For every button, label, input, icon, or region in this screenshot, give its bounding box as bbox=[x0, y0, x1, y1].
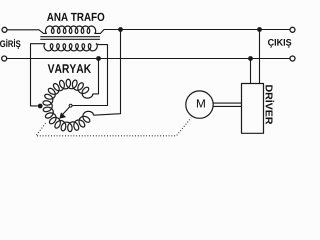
wire transformer primary to top line bbox=[94, 30, 290, 34]
terminal input L (top-left) bbox=[2, 27, 7, 32]
wire input L to transformer primary bbox=[7, 30, 47, 34]
junction dot neutral / variac top end riser bbox=[96, 56, 101, 61]
variac wiper pivot bbox=[69, 104, 72, 107]
motor shaft to driver bbox=[213, 103, 241, 106]
variac wiper arrowhead bbox=[59, 112, 66, 118]
wire variac winding top end riser bbox=[93, 57, 99, 94]
wire secondary right end to variac wiper riser bbox=[72, 44, 107, 106]
transformer T1 secondary winding bbox=[44, 44, 97, 51]
label GİRİŞ bbox=[0, 39, 20, 49]
label ANA TRAFO bbox=[47, 13, 104, 21]
mechanical coupling dashed link variac-motor bbox=[36, 118, 191, 136]
motor M1 body bbox=[186, 91, 213, 118]
wire variac winding bottom end riser bbox=[93, 29, 120, 116]
variac wiper arrow shaft bbox=[63, 107, 70, 114]
transformer T1 core bbox=[40, 37, 100, 40]
label ÇIKIŞ bbox=[268, 39, 291, 48]
wire neutral line (input N to output N) bbox=[7, 58, 290, 60]
terminal output L (top-right) bbox=[290, 27, 295, 32]
terminal output N (bottom-right) bbox=[290, 56, 295, 61]
wire secondary left end down to variac tap bbox=[31, 44, 46, 106]
wire top line down to driver bbox=[259, 30, 261, 84]
terminal input N (bottom-left) bbox=[2, 56, 7, 61]
junction dot neutral to driver bbox=[248, 56, 253, 61]
transformer T1 primary winding (ANA TRAFO series coil) bbox=[46, 26, 96, 33]
variac VARYAK toroidal winding bbox=[43, 79, 93, 131]
junction dot top line / variac bottom end riser bbox=[118, 27, 123, 32]
driver box bbox=[242, 84, 264, 134]
wire neutral down to driver bbox=[250, 59, 252, 84]
junction dot top line to driver bbox=[257, 27, 262, 32]
junction dot variac tap on winding bbox=[38, 104, 43, 109]
label M (motor) bbox=[197, 99, 205, 107]
label VARYAK bbox=[48, 64, 91, 73]
label DRİVER bbox=[266, 85, 275, 124]
